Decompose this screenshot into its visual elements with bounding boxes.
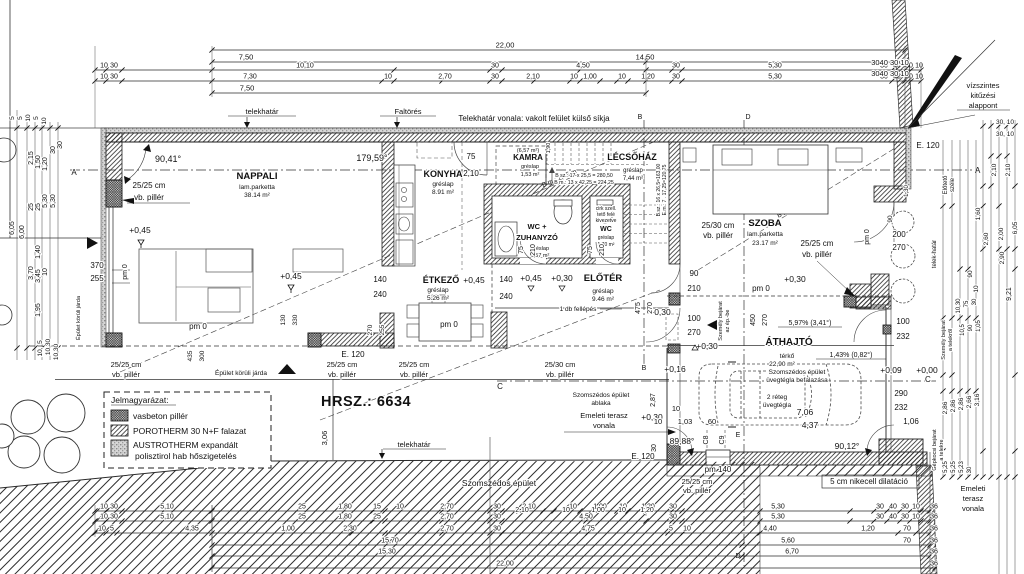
svg-text:15,30: 15,30: [378, 549, 396, 556]
svg-text:450: 450: [750, 314, 757, 326]
svg-text:az ép.-be: az ép.-be: [725, 310, 731, 333]
svg-text:10: 10: [384, 74, 392, 81]
svg-text:10,5: 10,5: [960, 324, 966, 336]
svg-text:+0,45: +0,45: [520, 273, 542, 283]
svg-text:10: 10: [672, 404, 680, 413]
svg-text:89,88°: 89,88°: [670, 436, 695, 446]
svg-text:Személy bejárat: Személy bejárat: [941, 320, 947, 360]
svg-text:+0,30: +0,30: [696, 341, 718, 351]
svg-text:2,10: 2,10: [1005, 163, 1012, 176]
svg-text:Előtető: Előtető: [943, 175, 949, 194]
svg-text:a telekre: a telekre: [939, 439, 945, 460]
svg-text:vb. pillér: vb. pillér: [328, 370, 356, 379]
svg-text:2,00: 2,00: [998, 227, 1005, 240]
svg-text:Faltörés: Faltörés: [394, 107, 421, 116]
svg-text:3040 30 10: 3040 30 10: [871, 69, 909, 78]
svg-text:270: 270: [892, 243, 906, 252]
svg-text:179,59°: 179,59°: [356, 153, 388, 163]
svg-text:5,25: 5,25: [951, 461, 957, 473]
svg-text:10: 10: [41, 117, 48, 125]
svg-text:25: 25: [298, 514, 306, 521]
svg-text:2,30: 2,30: [343, 526, 357, 533]
svg-text:140: 140: [499, 275, 513, 284]
svg-text:240: 240: [373, 290, 387, 299]
svg-text:pm 0: pm 0: [864, 229, 871, 245]
svg-text:+0,45: +0,45: [463, 275, 485, 285]
svg-text:POROTHERM 30 N+F falazat: POROTHERM 30 N+F falazat: [133, 426, 247, 436]
svg-text:telekhatár: telekhatár: [398, 440, 431, 449]
svg-text:23.17 m²: 23.17 m²: [752, 240, 778, 247]
svg-text:1,53 m²: 1,53 m²: [521, 172, 540, 178]
svg-text:30: 30: [493, 504, 501, 511]
svg-text:5: 5: [110, 526, 114, 533]
svg-text:2,10: 2,10: [463, 169, 479, 178]
svg-text:10: 10: [654, 417, 662, 426]
svg-text:270: 270: [762, 314, 769, 326]
svg-text:10: 10: [618, 507, 626, 514]
svg-text:75: 75: [964, 300, 970, 307]
svg-text:lam.parketta: lam.parketta: [747, 231, 783, 238]
svg-text:6,05: 6,05: [1012, 221, 1019, 234]
svg-text:térkő: térkő: [780, 353, 795, 360]
svg-text:1,20: 1,20: [861, 526, 875, 533]
svg-text:40: 40: [889, 514, 897, 521]
svg-text:5: 5: [33, 116, 40, 120]
svg-text:pm 0: pm 0: [189, 322, 207, 331]
svg-text:475: 475: [635, 302, 642, 314]
svg-text:1,05: 1,05: [976, 320, 982, 332]
svg-text:10,30: 10,30: [956, 298, 962, 314]
svg-text:210: 210: [530, 244, 537, 256]
svg-text:telekhatár: telekhatár: [246, 107, 279, 116]
svg-text:5: 5: [669, 526, 673, 533]
svg-text:2,86: 2,86: [958, 397, 965, 410]
svg-text:D: D: [745, 114, 750, 121]
svg-text:gréslap: gréslap: [623, 168, 643, 174]
svg-text:10: 10: [618, 74, 626, 81]
svg-text:1,00: 1,00: [591, 507, 605, 514]
svg-text:30: 30: [50, 146, 57, 154]
svg-text:2,10: 2,10: [991, 163, 998, 176]
svg-text:1,03: 1,03: [678, 417, 693, 426]
svg-text:30: 30: [110, 504, 118, 511]
svg-text:30: 30: [901, 504, 909, 511]
svg-text:pm 0: pm 0: [440, 320, 458, 329]
svg-text:gréslap: gréslap: [427, 287, 449, 294]
svg-text:22,00: 22,00: [496, 41, 515, 50]
svg-text:30, 10: 30, 10: [996, 131, 1014, 138]
svg-text:10: 10: [42, 268, 49, 276]
svg-text:NAPPALI: NAPPALI: [237, 171, 278, 182]
svg-text:6,00: 6,00: [19, 225, 26, 239]
svg-text:435: 435: [187, 350, 194, 361]
svg-text:5,25: 5,25: [943, 461, 949, 473]
svg-text:1,30: 1,30: [904, 185, 910, 197]
svg-text:30: 30: [493, 526, 501, 533]
svg-text:36: 36: [930, 561, 938, 568]
svg-text:üvegtégla befalazása: üvegtégla befalazása: [766, 377, 828, 384]
svg-text:9.46 m²: 9.46 m²: [592, 296, 615, 303]
svg-text:90: 90: [690, 269, 699, 278]
svg-text:gréslap: gréslap: [592, 288, 614, 295]
svg-text:210: 210: [599, 244, 606, 256]
svg-text:30: 30: [110, 63, 118, 70]
svg-text:6,70: 6,70: [785, 549, 799, 556]
svg-text:kivezetve: kivezetve: [596, 218, 617, 224]
svg-text:1,50: 1,50: [35, 155, 42, 169]
svg-text:Szomszédos épület: Szomszédos épület: [462, 478, 537, 488]
svg-text:25: 25: [35, 203, 42, 211]
svg-text:vb. pillér: vb. pillér: [802, 250, 832, 259]
svg-text:1,43% (0,82°): 1,43% (0,82°): [830, 351, 873, 359]
svg-text:2,87: 2,87: [650, 393, 657, 407]
svg-text:8.91 m²: 8.91 m²: [432, 189, 455, 196]
svg-text:270: 270: [687, 328, 701, 337]
svg-text:4,75: 4,75: [581, 526, 595, 533]
svg-text:100: 100: [687, 314, 701, 323]
svg-text:1,20: 1,20: [640, 507, 654, 514]
svg-text:ZUHANYZÓ: ZUHANYZÓ: [516, 233, 558, 242]
svg-text:4,40: 4,40: [763, 526, 777, 533]
svg-text:5,30: 5,30: [42, 194, 49, 208]
svg-text:vonala: vonala: [593, 421, 616, 430]
svg-text:vb. pillér: vb. pillér: [683, 486, 711, 495]
svg-text:10: 10: [570, 74, 578, 81]
svg-text:10: 10: [396, 504, 404, 511]
svg-text:30: 30: [876, 514, 884, 521]
svg-text:széle: széle: [950, 177, 956, 192]
svg-text:10: 10: [915, 63, 923, 70]
svg-text:10: 10: [915, 74, 923, 81]
svg-text:36: 36: [930, 526, 938, 533]
svg-text:Jelmagyarázat:: Jelmagyarázat:: [111, 395, 169, 405]
svg-text:7,44 m²: 7,44 m²: [623, 176, 643, 182]
svg-text:5: 5: [37, 340, 44, 344]
svg-text:AUSTROTHERM expandált: AUSTROTHERM expandált: [133, 440, 239, 450]
svg-text:gréslap: gréslap: [598, 235, 615, 241]
svg-text:vb. pillér: vb. pillér: [112, 370, 140, 379]
svg-text:10: 10: [100, 504, 108, 511]
svg-text:Szomszédos épület: Szomszédos épület: [769, 369, 826, 376]
svg-text:36: 36: [930, 549, 938, 556]
svg-text:3,06: 3,06: [320, 431, 329, 446]
svg-text:22,90 m²: 22,90 m²: [769, 361, 795, 368]
svg-text:telek-határ: telek-határ: [932, 240, 938, 268]
svg-text:+0,45: +0,45: [280, 271, 302, 281]
svg-text:E: E: [736, 432, 741, 439]
svg-text:200: 200: [892, 230, 906, 239]
svg-text:5,60: 5,60: [781, 538, 795, 545]
svg-text:+0,09: +0,09: [880, 365, 902, 375]
svg-text:7,50: 7,50: [240, 84, 255, 93]
svg-text:vb. pillér: vb. pillér: [134, 193, 164, 202]
svg-text:+0,30: +0,30: [784, 274, 806, 284]
svg-text:3,45: 3,45: [35, 269, 42, 283]
svg-text:90,41°: 90,41°: [155, 154, 182, 164]
svg-text:1,06: 1,06: [903, 417, 919, 426]
svg-text:Épület körüli járda: Épület körüli járda: [215, 368, 267, 377]
svg-text:25/25 cm: 25/25 cm: [327, 360, 358, 369]
svg-text:370: 370: [90, 261, 104, 270]
svg-text:2,90: 2,90: [999, 251, 1006, 264]
svg-text:1,00: 1,00: [583, 74, 597, 81]
svg-text:Telekhatár vonala: vakolt felü: Telekhatár vonala: vakolt felület külső …: [458, 114, 610, 123]
svg-text:90,12°: 90,12°: [835, 441, 860, 451]
svg-text:75: 75: [518, 246, 525, 254]
svg-text:255: 255: [90, 274, 104, 283]
svg-text:vonala: vonala: [962, 504, 985, 513]
svg-text:WC +: WC +: [528, 222, 548, 231]
svg-text:1,95: 1,95: [35, 303, 42, 317]
svg-text:1,00: 1,00: [281, 526, 295, 533]
svg-text:4,50: 4,50: [576, 63, 590, 70]
svg-text:30: 30: [669, 514, 677, 521]
svg-text:75: 75: [587, 246, 594, 254]
svg-text:30: 30: [669, 504, 677, 511]
svg-text:25/25 cm: 25/25 cm: [133, 181, 166, 190]
svg-text:30: 30: [672, 63, 680, 70]
svg-text:10: 10: [98, 526, 106, 533]
svg-text:25: 25: [373, 514, 381, 521]
svg-text:+0,16: +0,16: [664, 364, 686, 374]
svg-text:100: 100: [896, 317, 910, 326]
svg-text:10,30: 10,30: [53, 343, 60, 360]
svg-text:2,70: 2,70: [440, 526, 454, 533]
svg-text:30: 30: [491, 63, 499, 70]
svg-text:Személy bejárat: Személy bejárat: [718, 301, 724, 341]
svg-text:25/30 cm: 25/30 cm: [545, 360, 576, 369]
svg-text:5,30: 5,30: [50, 194, 57, 208]
svg-text:1 db fellépés: 1 db fellépés: [560, 306, 598, 313]
svg-text:vb. pillér: vb. pillér: [546, 370, 574, 379]
svg-text:2,10: 2,10: [515, 507, 529, 514]
svg-text:2,70: 2,70: [440, 514, 454, 521]
svg-text:255: 255: [379, 324, 386, 335]
svg-text:36: 36: [930, 504, 938, 511]
svg-text:gréslap: gréslap: [432, 181, 454, 188]
svg-text:10: 10: [100, 63, 108, 70]
svg-text:ELŐTÉR: ELŐTÉR: [584, 272, 623, 284]
svg-text:330: 330: [292, 314, 299, 325]
svg-text:a telekről: a telekről: [948, 329, 954, 351]
svg-text:C: C: [497, 382, 503, 391]
svg-text:5,23: 5,23: [959, 461, 965, 473]
svg-text:10,30: 10,30: [45, 338, 52, 355]
svg-text:30: 30: [651, 444, 658, 452]
svg-text:+0,00: +0,00: [916, 365, 938, 375]
svg-text:140: 140: [373, 275, 387, 284]
svg-text:5.26 m²: 5.26 m²: [427, 295, 450, 302]
svg-text:22,00: 22,00: [496, 561, 514, 568]
svg-text:üvegtégla: üvegtégla: [763, 402, 792, 409]
svg-text:90: 90: [968, 324, 974, 331]
svg-text:10: 10: [569, 504, 577, 511]
svg-text:232: 232: [896, 332, 910, 341]
svg-text:4,50: 4,50: [579, 514, 593, 521]
svg-text:30: 30: [967, 466, 973, 473]
svg-text:14,50: 14,50: [636, 53, 655, 62]
svg-text:25/25 cm: 25/25 cm: [399, 360, 430, 369]
svg-text:15,70: 15,70: [381, 538, 399, 545]
svg-text:1,20: 1,20: [42, 157, 49, 171]
svg-text:30: 30: [672, 74, 680, 81]
svg-text:30: 30: [491, 74, 499, 81]
svg-text:2,60: 2,60: [983, 232, 990, 245]
svg-text:vízszintes: vízszintes: [967, 81, 1000, 90]
svg-text:7,50: 7,50: [239, 53, 254, 62]
svg-text:2,86: 2,86: [942, 401, 949, 414]
svg-text:10: 10: [100, 514, 108, 521]
svg-text:B m.: 13 x 42,25 = 224,25: B m.: 13 x 42,25 = 224,25: [554, 180, 614, 186]
svg-text:terasz: terasz: [963, 494, 984, 503]
svg-text:1,80: 1,80: [338, 514, 352, 521]
svg-text:7,06: 7,06: [797, 407, 814, 417]
svg-text:10: 10: [100, 74, 108, 81]
svg-text:2 réteg: 2 réteg: [767, 394, 788, 401]
svg-text:C8: C8: [703, 435, 710, 444]
svg-text:C9: C9: [719, 435, 726, 444]
svg-text:5,30: 5,30: [771, 504, 785, 511]
svg-text:SZOBA: SZOBA: [748, 218, 781, 229]
svg-text:25: 25: [298, 504, 306, 511]
svg-text:5 cm nikecell dilatáció: 5 cm nikecell dilatáció: [830, 477, 908, 486]
svg-text:2,10: 2,10: [526, 74, 540, 81]
svg-text:10: 10: [683, 526, 691, 533]
svg-text:25/25 cm: 25/25 cm: [801, 239, 834, 248]
svg-text:10: 10: [912, 514, 920, 521]
svg-text:lam.parketta: lam.parketta: [239, 184, 275, 191]
svg-text:WC: WC: [600, 226, 612, 233]
svg-text:2,66: 2,66: [966, 395, 973, 408]
svg-text:ÁTHAJTÓ: ÁTHAJTÓ: [765, 335, 812, 348]
svg-text:E.m.: 7 . 17,25=120,75: E.m.: 7 . 17,25=120,75: [662, 164, 668, 215]
svg-text:5: 5: [17, 116, 24, 120]
svg-text:2,70: 2,70: [438, 74, 452, 81]
svg-text:10: 10: [973, 285, 980, 293]
svg-text:Gépkocsi bejárat: Gépkocsi bejárat: [932, 429, 938, 471]
svg-text:270: 270: [367, 324, 374, 335]
svg-text:3,16: 3,16: [974, 393, 981, 406]
svg-text:5: 5: [9, 116, 16, 120]
svg-text:10: 10: [25, 114, 32, 122]
svg-text:Emeleti: Emeleti: [960, 484, 985, 493]
svg-text:30: 30: [876, 504, 884, 511]
svg-text:25/25 cm: 25/25 cm: [682, 477, 713, 486]
svg-text:70: 70: [903, 526, 911, 533]
svg-text:5,97% (3,41°): 5,97% (3,41°): [789, 319, 832, 327]
svg-text:1,20: 1,20: [641, 74, 655, 81]
svg-text:38.14 m²: 38.14 m²: [244, 192, 270, 199]
svg-text:1,80: 1,80: [338, 504, 352, 511]
svg-text:30, 10: 30, 10: [996, 119, 1014, 126]
svg-text:210: 210: [687, 284, 701, 293]
svg-text:5,30: 5,30: [771, 514, 785, 521]
svg-text:10,10: 10,10: [296, 63, 314, 70]
svg-text:vasbeton pillér: vasbeton pillér: [133, 411, 188, 421]
svg-text:10,: 10,: [37, 347, 44, 356]
svg-text:10: 10: [912, 504, 920, 511]
svg-text:ÉTKEZŐ: ÉTKEZŐ: [423, 274, 460, 285]
svg-text:10: 10: [562, 507, 570, 514]
svg-text:B: B: [638, 114, 643, 121]
svg-text:HRSZ.: 6634: HRSZ.: 6634: [321, 394, 411, 410]
svg-text:1,90: 1,90: [546, 143, 552, 154]
svg-text:1,60: 1,60: [975, 207, 982, 220]
svg-text:75: 75: [467, 152, 476, 161]
svg-text:A: A: [71, 168, 77, 177]
svg-text:4,37: 4,37: [802, 420, 819, 430]
svg-text:9,21: 9,21: [1006, 287, 1013, 301]
svg-text:alappont: alappont: [969, 101, 999, 110]
svg-text:232: 232: [894, 403, 908, 412]
svg-text:130: 130: [280, 314, 287, 325]
svg-text:4,35: 4,35: [185, 526, 199, 533]
svg-text:pm 0: pm 0: [122, 264, 129, 280]
svg-text:KAMRA: KAMRA: [513, 153, 543, 162]
svg-text:Emeleti terasz: Emeleti terasz: [580, 411, 628, 420]
svg-text:90: 90: [887, 215, 894, 223]
svg-text:240: 240: [499, 292, 513, 301]
svg-text:Épület körüli járda: Épület körüli járda: [75, 295, 82, 340]
svg-text:KONYHA: KONYHA: [423, 169, 463, 179]
svg-text:pm 0: pm 0: [752, 284, 770, 293]
svg-text:300: 300: [199, 350, 206, 361]
svg-text:70: 70: [903, 538, 911, 545]
svg-text:3,70: 3,70: [28, 266, 35, 280]
svg-text:25/25 cm: 25/25 cm: [111, 360, 142, 369]
svg-text:kitűzési: kitűzési: [970, 91, 995, 100]
svg-text:2,86: 2,86: [950, 399, 957, 412]
svg-text:E. 120: E. 120: [631, 452, 655, 461]
svg-text:vb. pillér: vb. pillér: [400, 370, 428, 379]
svg-text:5,30: 5,30: [768, 74, 782, 81]
svg-text:30: 30: [493, 514, 501, 521]
svg-text:5,30: 5,30: [768, 63, 782, 70]
svg-text:36: 36: [930, 538, 938, 545]
svg-text:E. 120: E. 120: [341, 350, 365, 359]
svg-text:1,40: 1,40: [35, 245, 42, 259]
svg-text:30: 30: [57, 141, 64, 149]
svg-text:30: 30: [901, 514, 909, 521]
svg-text:pm 140: pm 140: [705, 465, 732, 474]
svg-text:36: 36: [930, 514, 938, 521]
svg-text:3040 30 10: 3040 30 10: [871, 58, 909, 67]
svg-text:Szomszédos épület: Szomszédos épület: [573, 392, 630, 399]
svg-text:B: B: [642, 365, 647, 372]
svg-text:ablaka: ablaka: [591, 400, 611, 407]
svg-text:30: 30: [972, 298, 978, 305]
svg-text:+0,45: +0,45: [129, 225, 151, 235]
svg-text:6,05: 6,05: [9, 221, 16, 235]
svg-text:15: 15: [373, 504, 381, 511]
svg-text:25: 25: [28, 203, 35, 211]
svg-text:5,10: 5,10: [160, 504, 174, 511]
svg-text:B sz.: 17 x 25,5 = 280,50: B sz.: 17 x 25,5 = 280,50: [555, 173, 613, 179]
svg-text:LÉCSŐHÁZ: LÉCSŐHÁZ: [607, 151, 657, 162]
svg-text:5,10: 5,10: [160, 514, 174, 521]
svg-text:40: 40: [889, 504, 897, 511]
svg-text:+0,30: +0,30: [551, 273, 573, 283]
svg-text:290: 290: [894, 389, 908, 398]
svg-text:7,30: 7,30: [243, 74, 257, 81]
svg-text:30: 30: [110, 514, 118, 521]
svg-text:vb. pillér: vb. pillér: [703, 231, 733, 240]
svg-text:C: C: [925, 375, 931, 384]
svg-text:E. 120: E. 120: [916, 141, 940, 150]
svg-text:gréslap: gréslap: [521, 164, 539, 170]
svg-text:2,15: 2,15: [28, 151, 35, 165]
svg-text:30: 30: [110, 74, 118, 81]
